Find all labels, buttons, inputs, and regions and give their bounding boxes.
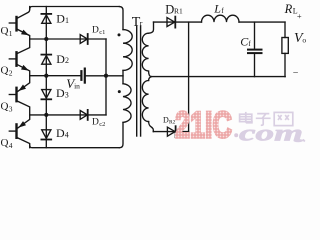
wire rectifier top line bbox=[154, 21, 202, 23]
node: clamp/tap junction bbox=[104, 74, 108, 78]
svg-text:D: D bbox=[56, 52, 65, 66]
svg-text:r: r bbox=[140, 19, 143, 28]
wire output return (center tap line) bbox=[152, 76, 286, 78]
label Cf bbox=[240, 34, 251, 48]
capacitor Cf branch bbox=[248, 22, 262, 77]
transistor Q2 bbox=[9, 39, 29, 76]
svg-text:D: D bbox=[92, 25, 99, 35]
label Q2 bbox=[1, 64, 13, 77]
resistor RL bbox=[282, 22, 288, 77]
node: D3-D4 junction bbox=[44, 113, 48, 117]
diode D2 bbox=[41, 55, 51, 65]
label Tr bbox=[132, 15, 143, 30]
wire mid row right (capacitor to transformer tap) bbox=[86, 75, 123, 77]
wire bottom rail bbox=[30, 145, 120, 148]
transformer Tr primary top winding bbox=[119, 7, 132, 84]
svg-text:2: 2 bbox=[9, 68, 13, 77]
label Q3 bbox=[1, 101, 13, 114]
svg-text:D: D bbox=[92, 118, 99, 128]
transistor Q1 bbox=[9, 7, 29, 40]
svg-text:3: 3 bbox=[65, 90, 69, 99]
svg-text:L: L bbox=[213, 2, 221, 16]
node: primary top polarity dot bbox=[118, 33, 121, 36]
node: primary bottom polarity dot bbox=[118, 90, 121, 93]
wire row D (Q3/Q4 junction to clamp node) bbox=[30, 114, 106, 116]
wire mid row left (leg midpoint to capacitor) bbox=[30, 75, 81, 77]
wire top rail bbox=[30, 7, 120, 10]
diode D4 bbox=[41, 130, 51, 140]
capacitor Vin (series blocking cap) bbox=[81, 69, 84, 83]
svg-text:in: in bbox=[74, 82, 80, 91]
transistor Q3 bbox=[9, 76, 29, 115]
label DR1 bbox=[165, 2, 183, 16]
label D4 bbox=[56, 126, 69, 140]
label RL bbox=[284, 2, 298, 16]
svg-text:4: 4 bbox=[9, 141, 13, 150]
label Q1 bbox=[1, 25, 13, 38]
watermark dot bbox=[234, 133, 238, 137]
svg-text:Q: Q bbox=[1, 101, 9, 113]
clamp diode Dc1 bbox=[80, 34, 88, 44]
svg-text:f: f bbox=[248, 39, 251, 48]
watermark 电子网 bbox=[240, 112, 293, 126]
svg-text:D: D bbox=[165, 2, 174, 16]
wire rectifier common vertical bbox=[188, 22, 190, 132]
label D3 bbox=[56, 86, 69, 100]
svg-text:−: − bbox=[293, 68, 299, 79]
wire clamp vertical (Dc1/Dc2 common to mid node) bbox=[105, 39, 107, 115]
transformer secondary bottom winding bbox=[142, 77, 153, 132]
svg-text:f: f bbox=[221, 6, 224, 15]
wire DR2 branch bbox=[153, 131, 188, 133]
node: D1-D2 junction bbox=[44, 37, 48, 41]
wire row A (Q1/Q2 junction to clamp node) bbox=[30, 38, 106, 40]
diode D1 bbox=[41, 14, 51, 23]
svg-text:R1: R1 bbox=[174, 7, 183, 16]
svg-text:c2: c2 bbox=[99, 121, 105, 128]
label Vin bbox=[66, 76, 80, 91]
svg-text:1: 1 bbox=[9, 29, 13, 38]
svg-text:1: 1 bbox=[65, 16, 69, 25]
svg-text:Q: Q bbox=[1, 137, 9, 149]
svg-text:2: 2 bbox=[65, 56, 69, 65]
inductor Lf bbox=[202, 15, 240, 22]
svg-text:c1: c1 bbox=[99, 29, 105, 36]
svg-text:D: D bbox=[56, 86, 65, 100]
wire Lf to load bbox=[239, 21, 285, 23]
svg-text:R: R bbox=[284, 2, 293, 16]
transformer Tr primary bottom winding bbox=[119, 84, 131, 148]
svg-text:Q: Q bbox=[1, 64, 9, 76]
svg-text:o: o bbox=[302, 36, 306, 45]
transistor Q4 bbox=[9, 115, 29, 148]
diode DR2 bbox=[167, 126, 175, 137]
label D2 bbox=[56, 52, 69, 66]
transformer core bbox=[137, 26, 141, 136]
label Dc1 bbox=[92, 25, 105, 36]
svg-text:4: 4 bbox=[65, 130, 69, 139]
svg-text:+: + bbox=[297, 11, 302, 21]
clamp diode Dc2 bbox=[80, 110, 88, 120]
transformer secondary top winding bbox=[142, 22, 153, 77]
svg-text:D: D bbox=[56, 12, 65, 26]
label D1 bbox=[56, 12, 69, 26]
svg-text:3: 3 bbox=[9, 105, 13, 114]
watermark m swash tail bbox=[294, 140, 305, 142]
label Q4 bbox=[1, 137, 13, 150]
wire freewheel diode column bbox=[45, 7, 47, 148]
diode D3 bbox=[41, 90, 51, 100]
label DR2 bbox=[163, 115, 176, 125]
node: D2-D3 midpoint junction bbox=[44, 74, 48, 78]
label Vo bbox=[294, 31, 306, 46]
svg-text:Q: Q bbox=[1, 25, 9, 37]
svg-text:21IC: 21IC bbox=[175, 104, 232, 146]
svg-text:D: D bbox=[56, 126, 65, 140]
svg-text:com: com bbox=[239, 120, 303, 145]
label Dc2 bbox=[92, 118, 105, 129]
diode DR1 bbox=[167, 17, 175, 28]
label Lf bbox=[213, 2, 224, 16]
